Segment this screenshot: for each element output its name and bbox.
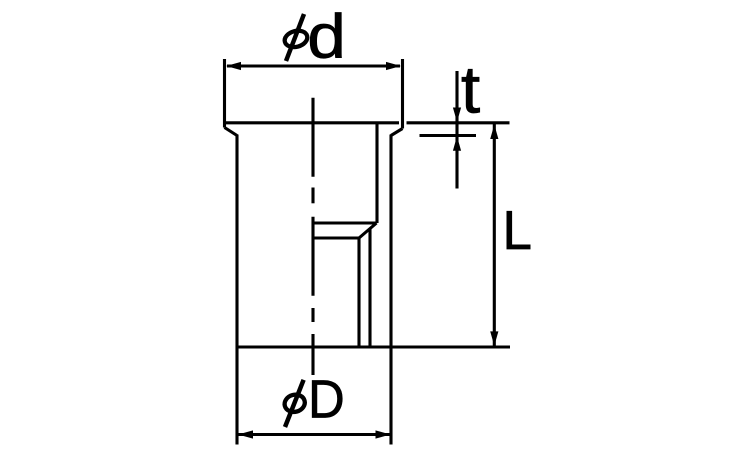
flange left chamfer <box>225 128 238 136</box>
t upper extension line <box>407 121 510 124</box>
svg-text:L: L <box>503 200 532 261</box>
dimension line phi-d <box>227 64 400 67</box>
thread step shoulder <box>314 236 359 239</box>
flange right chamfer <box>391 129 403 136</box>
arrowhead L up <box>490 125 498 140</box>
phi-D dimension line <box>239 433 391 436</box>
centre line <box>311 98 314 375</box>
arrowhead t up <box>453 136 461 151</box>
L dimension line <box>493 124 496 346</box>
body left edge / phi-D extension <box>235 135 238 445</box>
thread entry chamfer <box>359 223 377 238</box>
phi symbol of phi-d <box>283 14 309 61</box>
arrowhead L down <box>490 331 498 346</box>
extension line left of phi-d <box>223 59 226 128</box>
counterbore bottom step <box>314 221 377 224</box>
t dimension leader <box>455 71 458 189</box>
arrowhead phi-D left <box>238 430 253 438</box>
flange top surface <box>224 121 399 124</box>
arrowhead phi-D right <box>376 430 391 438</box>
t lower extension line <box>420 134 477 137</box>
arrowhead t down <box>453 108 461 123</box>
arrowhead phi-d left <box>226 62 241 70</box>
thread major line <box>368 229 371 348</box>
extension line right of phi-d <box>401 59 404 129</box>
svg-text:D: D <box>308 370 345 430</box>
svg-text:d: d <box>307 1 346 71</box>
thread minor line <box>357 238 360 347</box>
phi symbol of phi-D <box>283 380 307 427</box>
body right edge / phi-D extension <box>389 135 392 445</box>
counterbore right wall <box>375 123 378 223</box>
body bottom edge / L extension <box>236 345 510 348</box>
svg-text:t: t <box>461 53 480 127</box>
arrowhead phi-d right <box>386 62 401 70</box>
